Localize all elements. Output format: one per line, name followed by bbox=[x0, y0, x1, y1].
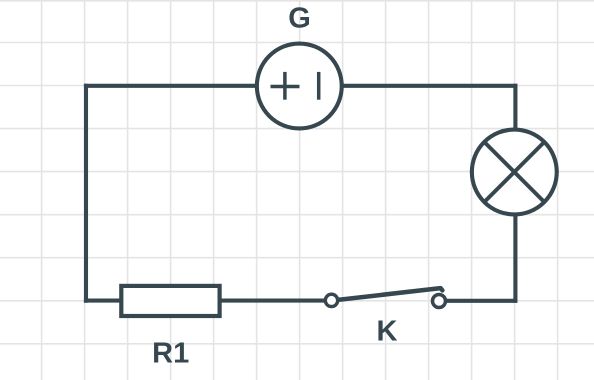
wire right: from top-right corner down to bottom-right corner through lamp bbox=[513, 84, 517, 303]
lamp L body bbox=[472, 130, 557, 215]
generator G plus terminal bbox=[271, 85, 300, 89]
generator G body bbox=[257, 44, 342, 129]
wire left: from top-left corner down to bottom-left corner bbox=[84, 84, 88, 303]
resistor R1 body bbox=[121, 286, 219, 316]
svg-text:K: K bbox=[377, 316, 398, 348]
wire top: from top-left corner to top-right corner through generator bbox=[84, 84, 518, 88]
svg-text:G: G bbox=[288, 2, 311, 34]
switch K right contact bbox=[433, 295, 446, 308]
svg-text:R1: R1 bbox=[152, 337, 189, 369]
wire bottom-left: from bottom-left corner to switch left contact through resistor bbox=[84, 299, 332, 303]
generator G minus terminal bar bbox=[317, 72, 321, 100]
lamp L cross bbox=[484, 142, 544, 202]
wire bottom-right: from switch right contact to bottom-right corner bbox=[438, 299, 517, 303]
switch K lever (open blade) bbox=[334, 288, 443, 300]
switch K left contact bbox=[325, 294, 337, 306]
